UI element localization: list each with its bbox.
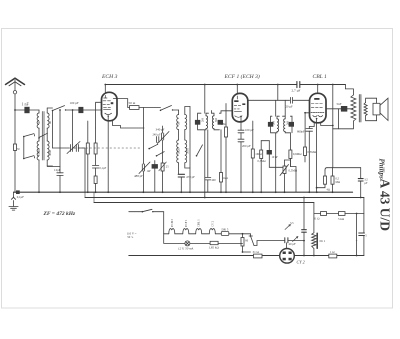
wire antenna to cap bbox=[15, 109, 25, 111]
svg-text:4MΩ: 4MΩ bbox=[220, 122, 227, 126]
svg-text:12pF: 12pF bbox=[54, 168, 61, 172]
svg-text:3000: 3000 bbox=[48, 150, 52, 157]
antenna coil L4 bbox=[47, 141, 52, 166]
svg-text:3,5: 3,5 bbox=[290, 222, 294, 225]
resistor 4M bbox=[220, 104, 228, 193]
capacitor 860pF bbox=[297, 127, 313, 193]
svg-text:CBL 1: CBL 1 bbox=[198, 219, 201, 227]
svg-text:1MΩ: 1MΩ bbox=[255, 152, 262, 156]
svg-text:Dr 1: Dr 1 bbox=[320, 239, 326, 243]
heater chain bbox=[164, 219, 222, 234]
IF switch lever bbox=[196, 145, 203, 157]
svg-text:5020: 5020 bbox=[177, 148, 181, 155]
svg-text:50 ∿: 50 ∿ bbox=[127, 235, 134, 239]
capacitor 400pF (IF1) bbox=[205, 130, 216, 192]
output transformer primary bbox=[345, 85, 356, 129]
band switch S1b bbox=[38, 133, 47, 141]
svg-text:ECH 3: ECH 3 bbox=[171, 219, 174, 227]
capacitor 20uF coupling bbox=[286, 97, 310, 108]
antenna bbox=[6, 78, 25, 110]
capacitor 470pF bbox=[178, 174, 195, 192]
mains switch bbox=[129, 209, 164, 234]
svg-text:100 µF: 100 µF bbox=[70, 101, 79, 105]
wire CBL1 pin to 860pF bbox=[309, 122, 314, 126]
capacitor 200uF bbox=[238, 139, 251, 192]
wire CBL1 anode to rail bbox=[317, 84, 319, 94]
svg-text:15000: 15000 bbox=[37, 148, 41, 156]
wire ECF1 anode to rail bbox=[236, 85, 238, 94]
tube ECH3 bbox=[102, 92, 118, 121]
trimmer capacitor gang A bbox=[53, 142, 86, 193]
wire ECH3 anode to rail bbox=[104, 85, 106, 93]
wire down from output bbox=[332, 129, 334, 168]
svg-text:860pF: 860pF bbox=[297, 130, 305, 134]
capacitor 40uF bbox=[254, 238, 304, 249]
capacitor 12pF bbox=[47, 109, 63, 192]
tube ECF1 bbox=[232, 93, 248, 122]
right verticals bbox=[357, 198, 364, 256]
oscillator coil T2 upper bbox=[177, 110, 181, 140]
svg-text:60: 60 bbox=[37, 121, 41, 125]
wire CBL1 cathode down bbox=[316, 119, 318, 192]
choke Dr5 bbox=[221, 227, 242, 237]
gang dashed link bbox=[74, 147, 141, 149]
svg-text:0,1µF: 0,1µF bbox=[100, 167, 107, 170]
svg-text:20 µF: 20 µF bbox=[286, 104, 293, 108]
resistor 50k bbox=[94, 128, 97, 165]
svg-text:µF: µF bbox=[364, 182, 368, 185]
output stage left vertical bbox=[332, 84, 354, 129]
svg-text:488 pF: 488 pF bbox=[134, 174, 143, 178]
svg-text:400: 400 bbox=[212, 179, 217, 182]
ground bbox=[9, 192, 18, 210]
wire feedback horizontal bbox=[327, 167, 361, 169]
coil core bbox=[42, 112, 44, 161]
svg-text:31 Ω: 31 Ω bbox=[314, 217, 321, 221]
svg-text:ECF 1 (ECH 3): ECF 1 (ECH 3) bbox=[224, 73, 260, 80]
choke Dr1 bbox=[312, 203, 326, 256]
resistor 1 ohm bbox=[329, 250, 337, 258]
resistor on antenna lead bbox=[14, 110, 21, 192]
adjustment arrows bbox=[285, 222, 298, 242]
svg-text:10 nF: 10 nF bbox=[272, 156, 279, 159]
svg-text:5nF: 5nF bbox=[337, 102, 342, 106]
volume potentiometer 0.5M bbox=[280, 159, 298, 193]
resistor 5k (line) bbox=[338, 212, 364, 221]
wire ECH3 pins bbox=[113, 120, 145, 128]
svg-text:CBL 1: CBL 1 bbox=[313, 74, 328, 80]
IF1 secondary cap bbox=[218, 111, 232, 173]
rail junction dots bbox=[104, 84, 278, 86]
svg-text:500: 500 bbox=[273, 120, 276, 125]
IF transformer 1 coil 260 bbox=[201, 113, 209, 197]
capacitor 1nF (osc) bbox=[147, 161, 158, 193]
IF transformer 1 coil 590 bbox=[212, 111, 220, 130]
capacitor 10nF (AF coupling) bbox=[261, 141, 283, 168]
band switch lever (osc a) bbox=[148, 144, 157, 149]
antenna coil L1 bbox=[37, 110, 41, 141]
trimmer capacitor 488pF bbox=[134, 162, 150, 192]
svg-text:A 43 U/D: A 43 U/D bbox=[378, 179, 393, 232]
resistor 31 ohm bbox=[253, 250, 263, 258]
svg-text:260: 260 bbox=[202, 117, 205, 122]
svg-text:200 µF: 200 µF bbox=[242, 144, 251, 148]
resistor 0.5M (fb) bbox=[331, 168, 340, 193]
svg-text:470 pF: 470 pF bbox=[186, 175, 195, 179]
transformer core bbox=[359, 95, 361, 123]
svg-text:MΩ: MΩ bbox=[336, 181, 341, 184]
svg-text:1 nF: 1 nF bbox=[22, 102, 30, 107]
bottom mains line bbox=[129, 255, 364, 257]
resistor (divider) bbox=[317, 168, 330, 192]
switch (voltage select) bbox=[243, 234, 255, 246]
wire screen feed bbox=[277, 85, 279, 101]
svg-text:60: 60 bbox=[48, 121, 52, 125]
AF coupling wire bbox=[248, 99, 290, 101]
padder capacitor (gang 2) bbox=[153, 134, 162, 145]
svg-text:50 Ω: 50 Ω bbox=[129, 101, 136, 105]
resistor 1M (AVC) bbox=[86, 121, 89, 192]
wire bbox=[52, 111, 54, 149]
bus junction dots bbox=[14, 109, 333, 193]
svg-text:5 kΩ: 5 kΩ bbox=[338, 217, 345, 221]
capacitor 5nF tone bbox=[326, 102, 353, 129]
band switch lever (osc b) bbox=[156, 152, 165, 157]
svg-text:590: 590 bbox=[215, 117, 218, 122]
resistor 50 bbox=[94, 168, 97, 192]
pilot lamp bbox=[164, 234, 210, 252]
capacitor 100uF (cathode) bbox=[238, 117, 254, 139]
secondary bus bbox=[85, 197, 364, 199]
resistor (barretter) bbox=[241, 238, 251, 253]
oscillator switch S2 bbox=[160, 106, 179, 112]
wire ECH3 cathode down bbox=[107, 117, 109, 192]
resistor (osc grid) bbox=[159, 162, 169, 192]
capacitor (buffer) bbox=[302, 197, 307, 256]
svg-text:+: + bbox=[356, 239, 358, 243]
capacitor 100pF (mixer grid) bbox=[70, 101, 102, 113]
output transformer secondary bbox=[364, 103, 367, 116]
bottom junction dots bbox=[242, 233, 358, 256]
svg-text:DR 5: DR 5 bbox=[222, 227, 229, 231]
wire osc feedback bbox=[142, 108, 144, 165]
capacitor 3.5uF (fb) bbox=[358, 168, 368, 198]
resistor 125k bbox=[209, 241, 243, 250]
svg-text:240 µF: 240 µF bbox=[153, 134, 162, 137]
wire ECH3 grid left bbox=[96, 102, 102, 128]
resistor 1M (det) bbox=[258, 141, 266, 193]
svg-text:31 Ω: 31 Ω bbox=[253, 250, 260, 254]
earth capacitor 0.1uF bbox=[16, 191, 24, 200]
svg-text:CY 2: CY 2 bbox=[211, 220, 214, 226]
oscillator coil T2 upper right bbox=[185, 107, 190, 169]
svg-text:ZF = 472 kHz: ZF = 472 kHz bbox=[43, 211, 76, 217]
svg-text:340 pF: 340 pF bbox=[156, 128, 165, 132]
oscillator coil T2 lower right bbox=[185, 140, 190, 192]
HT rail bbox=[105, 84, 296, 86]
oscillator coil T2 lower bbox=[177, 140, 181, 174]
IF transformer 2 unit 2 bbox=[283, 100, 294, 150]
loudspeaker bbox=[366, 98, 388, 121]
resistor 1k (IF) bbox=[220, 173, 228, 193]
IF transformer 1 cap bbox=[195, 85, 205, 130]
svg-text:ECF 1: ECF 1 bbox=[185, 219, 188, 227]
capacitor 0.1uF bbox=[92, 165, 106, 169]
rectifier CY2 bbox=[280, 249, 305, 265]
wire CBL1 screen bbox=[321, 122, 333, 125]
resistor 0.5M bbox=[304, 113, 317, 162]
resistor 0.6M bbox=[289, 150, 302, 167]
capacitor 1nF bbox=[22, 102, 40, 113]
wire CBL1 grid3 left bbox=[304, 112, 309, 114]
antenna coil L2 bbox=[47, 108, 52, 135]
wire trimmer feed bbox=[72, 109, 74, 144]
tube CBL1 bbox=[310, 93, 327, 123]
svg-text:50: 50 bbox=[177, 122, 181, 126]
svg-text:3010: 3010 bbox=[186, 148, 190, 155]
svg-text:Philips: Philips bbox=[378, 159, 386, 180]
resistor 50 ohm (osc) bbox=[113, 99, 160, 110]
third bus bbox=[94, 202, 314, 204]
IF transformer 2 unit 1 bbox=[268, 100, 279, 192]
svg-text:40 µF: 40 µF bbox=[289, 242, 296, 246]
main earth bus bbox=[14, 191, 353, 193]
svg-text:CY 2: CY 2 bbox=[297, 260, 305, 265]
svg-text:1nF: 1nF bbox=[147, 170, 152, 173]
resistor 1M (ECF1 cathode) bbox=[251, 121, 262, 192]
capacitor 2.7uF on rail bbox=[292, 82, 346, 94]
svg-text:1 Ω: 1 Ω bbox=[330, 250, 335, 254]
resistor 31 ohm (line) bbox=[314, 212, 339, 221]
svg-text:1kΩ: 1kΩ bbox=[223, 177, 228, 180]
mains terminals bbox=[127, 231, 137, 239]
svg-text:4Ω: 4Ω bbox=[327, 189, 330, 192]
svg-text:ECH 3: ECH 3 bbox=[101, 74, 118, 80]
wave switch S1a bbox=[47, 106, 78, 112]
electrolytic 50uF bbox=[356, 233, 368, 256]
trimmer capacitor 340pF bbox=[156, 126, 170, 163]
band switch levers (antenna) bbox=[23, 134, 35, 160]
antenna coil L3 bbox=[37, 141, 41, 192]
